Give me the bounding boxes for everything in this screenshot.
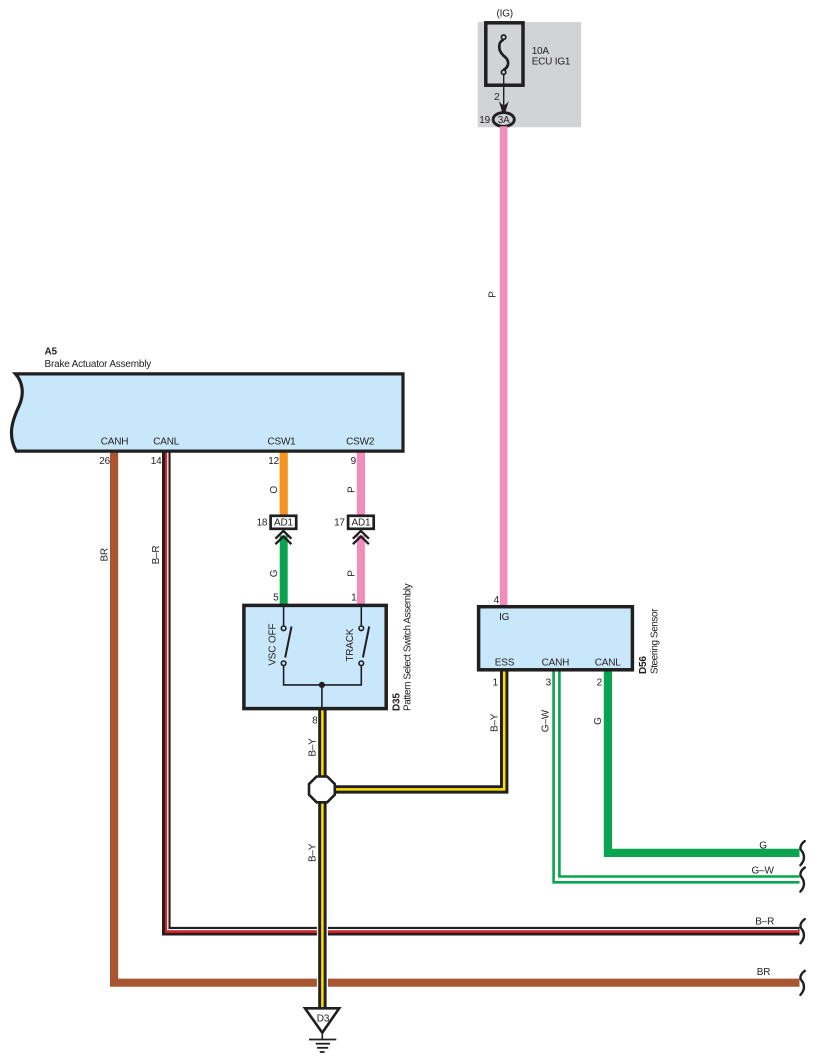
wave break B-R <box>800 919 804 943</box>
svg-text:G: G <box>759 841 767 852</box>
svg-text:G–W: G–W <box>541 709 552 732</box>
internal wires to common node <box>284 666 362 708</box>
ground bar 1 <box>309 1039 336 1041</box>
fuse terminal circle top <box>501 35 505 39</box>
svg-text:P: P <box>488 291 499 298</box>
svg-text:B–R: B–R <box>151 546 162 565</box>
wave break G-W <box>800 868 804 892</box>
connector D56 box Steering Sensor <box>479 607 633 670</box>
svg-text:9: 9 <box>351 456 357 467</box>
svg-text:12: 12 <box>268 456 279 467</box>
switch VSC OFF lead from pin 5 <box>283 607 285 626</box>
svg-text:AD1: AD1 <box>351 517 370 528</box>
svg-text:Steering Sensor: Steering Sensor <box>649 608 660 674</box>
svg-text:ECU IG1: ECU IG1 <box>532 56 571 67</box>
wire P (pink) CSW2 pin 9 to AD1 <box>357 450 365 516</box>
arrowhead to connector 3A <box>499 101 509 112</box>
connector AD1 (pin 17) <box>348 516 374 529</box>
switch TRACK top contact <box>359 626 364 631</box>
svg-text:26: 26 <box>99 456 110 467</box>
wire B-Y junction to ground D3 <box>317 799 328 1007</box>
fuse terminal circle bottom <box>501 70 505 74</box>
svg-text:2: 2 <box>597 678 603 689</box>
wire P (pink) fuse to D56 IG <box>500 126 508 608</box>
switch VSC OFF blade <box>285 627 291 658</box>
connector AD1 (pin 18) <box>271 516 297 529</box>
svg-text:1: 1 <box>493 678 499 689</box>
ground bar 2 <box>316 1043 330 1045</box>
svg-text:14: 14 <box>151 456 162 467</box>
junction dot in D35 <box>319 682 325 688</box>
svg-text:3: 3 <box>546 678 552 689</box>
wire B-Y D35 pin 8 to junction <box>317 711 328 780</box>
svg-text:D56: D56 <box>638 656 649 674</box>
connector A5 box Brake Actuator Assembly <box>11 374 403 451</box>
svg-text:BR: BR <box>757 967 771 978</box>
svg-text:CANH: CANH <box>101 437 129 448</box>
svg-text:AD1: AD1 <box>274 517 293 528</box>
svg-text:B–Y: B–Y <box>490 713 501 732</box>
svg-text:P: P <box>346 570 357 577</box>
switch VSC OFF top contact <box>281 626 286 631</box>
svg-text:3A: 3A <box>498 115 510 126</box>
svg-text:TRACK: TRACK <box>345 628 356 661</box>
svg-text:CANH: CANH <box>542 658 570 669</box>
svg-text:4: 4 <box>494 595 500 606</box>
switch TRACK lead from pin 1 <box>360 607 362 626</box>
ground stem <box>321 1033 323 1040</box>
wire B-R (black/red) CANL pin 14 <box>166 450 799 931</box>
fuse F1 box <box>486 23 523 85</box>
svg-text:BR: BR <box>100 548 111 562</box>
svg-text:CSW1: CSW1 <box>267 437 296 448</box>
switch TRACK bottom contact <box>359 661 364 666</box>
chevron arrows below AD1 pin 17 <box>353 531 369 544</box>
wire O (orange) CSW1 pin 12 to AD1 <box>280 450 288 516</box>
svg-text:5: 5 <box>273 593 279 604</box>
wave break G <box>800 841 804 865</box>
svg-text:Pattern Select Switch Assembly: Pattern Select Switch Assembly <box>403 583 414 711</box>
svg-text:19: 19 <box>479 115 490 126</box>
connector D35 box Pattern Select Switch Assembly <box>244 605 386 708</box>
wire G (green) AD1 to D35 pin 5 <box>280 536 288 610</box>
wire fuse to connector <box>503 75 505 108</box>
svg-text:17: 17 <box>334 517 345 528</box>
svg-text:ESS: ESS <box>495 658 515 669</box>
fuse block background (junction block) <box>478 22 582 127</box>
svg-text:G: G <box>269 569 280 577</box>
chevron arrows below AD1 pin 18 <box>275 531 291 544</box>
ground bar 3 <box>317 1047 328 1049</box>
svg-text:B–Y: B–Y <box>308 843 319 862</box>
svg-text:CSW2: CSW2 <box>346 437 375 448</box>
wave break BR <box>800 971 804 995</box>
svg-text:G: G <box>593 717 604 725</box>
wire P (pink) AD1 to D35 pin 1 <box>357 536 365 610</box>
svg-text:G–W: G–W <box>752 866 775 877</box>
svg-text:2: 2 <box>494 92 500 103</box>
fuse element S-curve <box>499 40 508 70</box>
ground bar 4 <box>320 1051 325 1053</box>
svg-text:D35: D35 <box>391 693 402 711</box>
svg-text:VSC OFF: VSC OFF <box>267 624 278 666</box>
svg-text:O: O <box>269 486 280 494</box>
svg-text:1: 1 <box>351 593 357 604</box>
ground symbol D3 triangle <box>305 1008 339 1032</box>
svg-text:IG: IG <box>499 612 510 623</box>
wire BR (brown) CANH pin 26 <box>114 450 799 983</box>
switch TRACK blade <box>363 627 369 658</box>
svg-text:18: 18 <box>257 517 268 528</box>
svg-text:B–Y: B–Y <box>308 738 319 757</box>
svg-text:A5: A5 <box>45 347 58 358</box>
svg-text:CANL: CANL <box>595 658 622 669</box>
svg-text:CANL: CANL <box>153 437 180 448</box>
junction octagon node <box>309 777 335 803</box>
svg-text:Brake Actuator Assembly: Brake Actuator Assembly <box>45 359 152 370</box>
svg-text:P: P <box>346 486 357 493</box>
wire G-W (green/white) D56 CANH pin 3 <box>557 669 800 879</box>
svg-text:(IG): (IG) <box>496 8 512 19</box>
wire B-Y junction to D56 ESS <box>330 670 504 789</box>
svg-text:B–R: B–R <box>755 916 774 927</box>
switch VSC OFF bottom contact <box>281 661 286 666</box>
wire G (green) D56 CANL pin 2 <box>608 669 800 853</box>
connector oval 3A <box>493 113 514 127</box>
svg-text:D3: D3 <box>317 1013 330 1024</box>
